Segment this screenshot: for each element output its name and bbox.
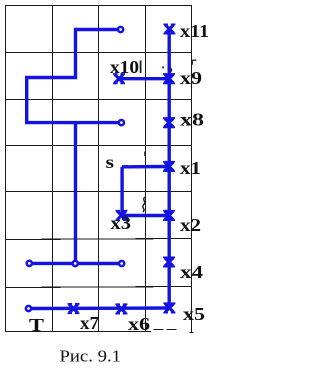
node circle top line end (118, 27, 123, 32)
wire x10 to x9 (119, 77, 169, 80)
wire second horizontal (25, 121, 118, 124)
wire main vertical (167, 29, 170, 308)
svg-text:Рис. 9.1: Рис. 9.1 (60, 347, 122, 366)
stray mark after x10 (140, 61, 142, 74)
svg-text:x6: x6 (128, 314, 150, 334)
svg-text:x10: x10 (110, 57, 139, 77)
node x10 (113, 74, 125, 83)
wire x4 row horizontal (32, 262, 119, 266)
node x2 (163, 211, 175, 220)
svg-text:s: s (106, 152, 115, 172)
node x3 (116, 211, 128, 220)
node x5 (163, 303, 175, 312)
node x6 (115, 304, 127, 313)
svg-text:x5: x5 (183, 304, 205, 324)
svg-text:x9: x9 (180, 68, 202, 88)
wire left step down (27, 28, 76, 123)
node x4 (163, 257, 175, 266)
node circle second line end (119, 120, 124, 125)
node circle x4 row left (27, 261, 32, 266)
node x7 (68, 304, 80, 313)
wire top horizontal (76, 28, 118, 31)
svg-text:T: T (29, 315, 44, 335)
wire bottom T row (31, 306, 169, 310)
svg-text:x4: x4 (180, 262, 203, 282)
svg-text:x11: x11 (180, 21, 209, 41)
wire s-box top (122, 165, 169, 169)
node circle T (26, 306, 31, 311)
node x11 (163, 24, 175, 33)
svg-text:x3: x3 (111, 213, 132, 233)
node x1 (163, 162, 175, 171)
stray squiggle left of grid col (143, 197, 145, 212)
svg-text:x1: x1 (180, 158, 201, 178)
node x9 (163, 74, 175, 83)
node circle x4 row right (119, 261, 124, 266)
wire s-box bottom (122, 214, 169, 217)
svg-text:x8: x8 (180, 110, 204, 130)
svg-text:x7: x7 (80, 313, 99, 333)
stray tick right of main line above x9 (170, 68, 173, 72)
node x8 (163, 118, 175, 127)
stray tick right of x10 line (192, 60, 196, 64)
stray dot left of main line above x9 (162, 67, 164, 69)
X node marks (68, 24, 176, 313)
wire middle vertical branch (74, 123, 77, 261)
node circle junction mid vertical (73, 261, 78, 266)
wire s-box left (120, 167, 123, 216)
svg-text:x2: x2 (180, 215, 201, 235)
stray tick above s-box (144, 152, 146, 157)
node circles (open terminals) (26, 27, 124, 311)
